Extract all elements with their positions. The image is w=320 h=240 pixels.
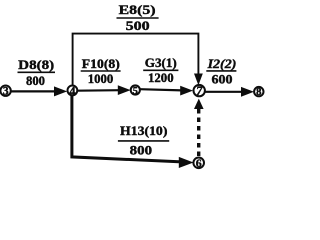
svg-text:3: 3 <box>3 86 9 98</box>
svg-text:F10(8): F10(8) <box>82 57 120 71</box>
svg-text:D8(8): D8(8) <box>18 58 54 72</box>
svg-text:G3(1): G3(1) <box>145 56 177 70</box>
svg-text:5: 5 <box>133 86 138 97</box>
svg-text:4: 4 <box>69 85 76 99</box>
svg-text:500: 500 <box>126 19 150 33</box>
svg-text:7: 7 <box>196 84 203 98</box>
svg-text:800: 800 <box>130 143 152 157</box>
svg-text:800: 800 <box>26 74 45 88</box>
svg-text:I2(2): I2(2) <box>206 57 236 71</box>
svg-text:E8(5): E8(5) <box>119 3 156 17</box>
svg-text:600: 600 <box>212 72 233 86</box>
svg-text:1000: 1000 <box>88 72 114 86</box>
svg-text:8: 8 <box>256 87 261 98</box>
svg-text:1200: 1200 <box>148 71 174 85</box>
svg-text:H13(10): H13(10) <box>120 124 167 138</box>
svg-text:6: 6 <box>196 156 202 170</box>
